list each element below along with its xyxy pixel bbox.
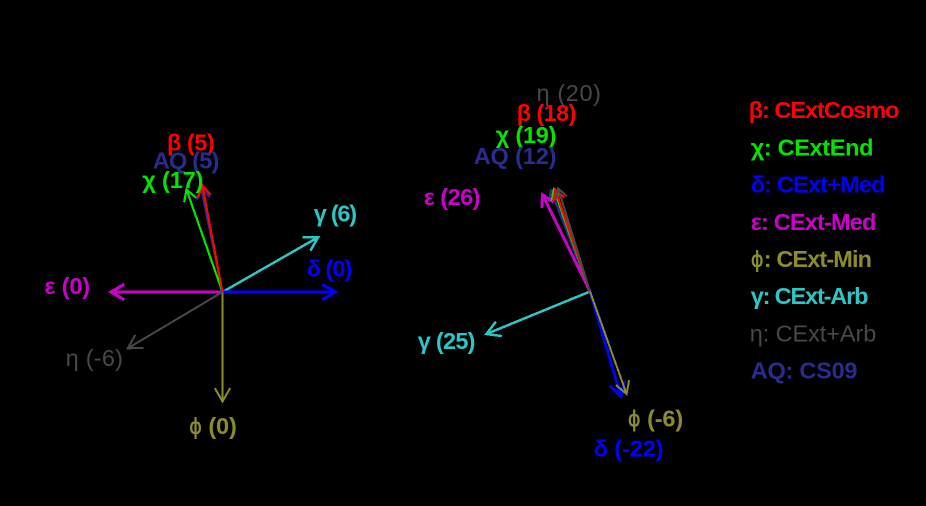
svg-text:ε: CExt-Med: ε: CExt-Med (751, 209, 877, 235)
svg-text:δ: CExt+Med: δ: CExt+Med (751, 172, 886, 198)
svg-text:ϕ: ϕ (751, 247, 763, 272)
svg-text:ε (0): ε (0) (45, 273, 91, 299)
svg-text:γ (25): γ (25) (418, 328, 476, 354)
svg-text:χ (17): χ (17) (142, 167, 203, 193)
svg-text:ϕ: ϕ (189, 414, 201, 439)
svg-text:δ (0): δ (0) (307, 255, 353, 281)
svg-text:η (-6): η (-6) (66, 345, 123, 371)
svg-text:γ: CExt-Arb: γ: CExt-Arb (751, 283, 869, 309)
svg-text:ϕ: ϕ (628, 407, 640, 432)
svg-text:(-6): (-6) (647, 405, 683, 431)
svg-text:γ (6): γ (6) (314, 200, 357, 226)
svg-text:δ (-22): δ (-22) (594, 436, 664, 462)
svg-text:(0): (0) (208, 413, 237, 439)
svg-text:AQ: CS09: AQ: CS09 (751, 358, 858, 384)
svg-text:AQ (12): AQ (12) (474, 143, 557, 169)
svg-text:η: CExt+Arb: η: CExt+Arb (750, 320, 877, 346)
svg-text:: CExt-Min: : CExt-Min (764, 246, 872, 272)
svg-text:β: CExtCosmo: β: CExtCosmo (749, 97, 900, 123)
svg-text:ε (26): ε (26) (424, 184, 481, 210)
svg-text:χ: CExtEnd: χ: CExtEnd (751, 134, 874, 160)
